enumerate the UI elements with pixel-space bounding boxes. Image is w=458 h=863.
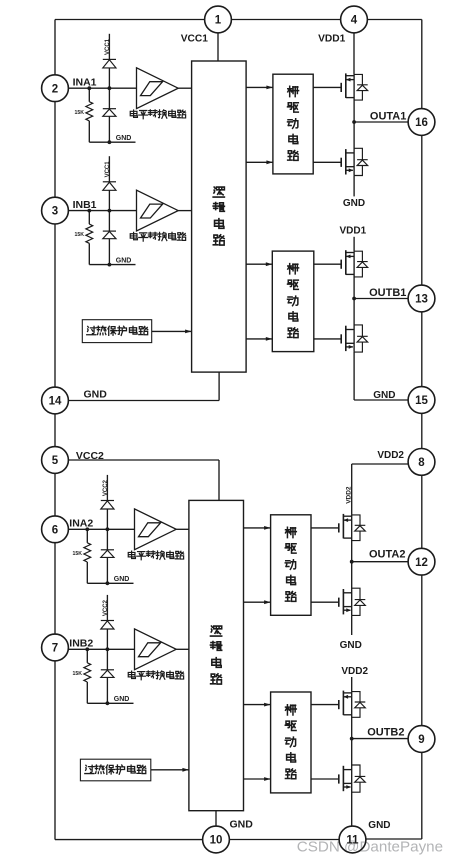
svg-text:16: 16 bbox=[415, 117, 428, 129]
svg-text:GND: GND bbox=[116, 135, 132, 142]
svg-text:INB1: INB1 bbox=[73, 199, 97, 211]
svg-text:INB2: INB2 bbox=[69, 638, 93, 650]
svg-text:7: 7 bbox=[52, 643, 58, 655]
svg-text:10: 10 bbox=[210, 835, 223, 847]
svg-text:OUTB1: OUTB1 bbox=[369, 287, 406, 299]
svg-text:2: 2 bbox=[52, 83, 58, 95]
svg-text:OUTA1: OUTA1 bbox=[370, 111, 406, 123]
svg-text:VDD2: VDD2 bbox=[341, 666, 368, 677]
svg-text:GND: GND bbox=[340, 640, 362, 651]
svg-text:15K: 15K bbox=[73, 671, 83, 677]
svg-text:15: 15 bbox=[415, 395, 428, 407]
svg-text:15K: 15K bbox=[73, 551, 83, 557]
svg-text:OUTA2: OUTA2 bbox=[369, 549, 405, 561]
svg-text:14: 14 bbox=[49, 396, 62, 408]
svg-text:VCC2: VCC2 bbox=[103, 479, 109, 496]
svg-text:VDD1: VDD1 bbox=[318, 34, 346, 45]
svg-text:GND: GND bbox=[116, 257, 132, 264]
svg-text:CSDN @DantePayne: CSDN @DantePayne bbox=[297, 839, 443, 856]
svg-text:5: 5 bbox=[52, 455, 59, 467]
svg-text:9: 9 bbox=[418, 734, 424, 746]
svg-text:VCC1: VCC1 bbox=[105, 38, 111, 55]
svg-text:GND: GND bbox=[84, 388, 108, 400]
svg-text:8: 8 bbox=[418, 457, 425, 469]
svg-text:VDD1: VDD1 bbox=[340, 226, 367, 237]
svg-text:OUTB2: OUTB2 bbox=[367, 726, 404, 738]
svg-text:VDD2: VDD2 bbox=[377, 450, 404, 461]
svg-text:INA1: INA1 bbox=[73, 77, 97, 89]
svg-text:VCC2: VCC2 bbox=[76, 450, 104, 462]
svg-text:GND: GND bbox=[114, 696, 130, 703]
svg-text:VCC1: VCC1 bbox=[181, 34, 209, 45]
svg-text:GND: GND bbox=[230, 819, 254, 831]
svg-text:VCC1: VCC1 bbox=[105, 161, 111, 178]
svg-text:VDD2: VDD2 bbox=[345, 486, 352, 504]
svg-text:GND: GND bbox=[368, 820, 390, 831]
svg-text:13: 13 bbox=[415, 294, 428, 306]
svg-text:3: 3 bbox=[52, 206, 58, 218]
svg-text:INA2: INA2 bbox=[69, 518, 93, 530]
svg-text:15K: 15K bbox=[75, 232, 85, 238]
svg-text:VCC2: VCC2 bbox=[103, 599, 109, 616]
svg-text:GND: GND bbox=[114, 576, 130, 583]
svg-text:1: 1 bbox=[215, 15, 222, 27]
svg-text:GND: GND bbox=[373, 390, 395, 401]
svg-text:GND: GND bbox=[343, 198, 365, 209]
svg-text:12: 12 bbox=[415, 557, 428, 569]
svg-text:15K: 15K bbox=[75, 110, 85, 116]
svg-text:6: 6 bbox=[52, 524, 58, 536]
svg-text:4: 4 bbox=[351, 15, 358, 27]
